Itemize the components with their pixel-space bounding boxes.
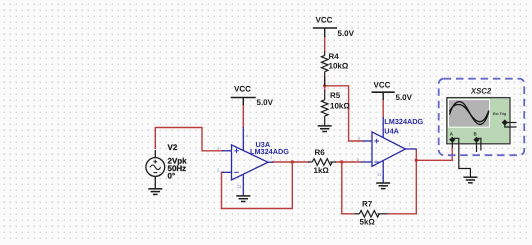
junction node U4A output (415, 159, 418, 162)
svg-text:VCC: VCC (374, 80, 391, 89)
oscilloscope body (447, 98, 510, 144)
svg-text:XSC2: XSC2 (470, 86, 492, 95)
svg-text:R6: R6 (315, 148, 326, 157)
wire node to R7 left (342, 162, 355, 214)
source V2 (146, 150, 165, 189)
svg-text:10kΩ: 10kΩ (329, 61, 349, 70)
oscilloscope XSC2 selection box (439, 79, 525, 156)
wire V2 top to U3A + input (155, 128, 223, 151)
V2 labels (168, 143, 188, 181)
wire R6 to U4A - input (336, 161, 362, 163)
wire U3A output to R6 (272, 161, 309, 163)
op-amp U4A (361, 117, 417, 183)
junction node R4R5-U4A (323, 84, 326, 87)
ground scope (463, 177, 477, 183)
junction node R7 left (340, 160, 343, 163)
svg-text:11: 11 (237, 184, 242, 189)
oscilloscope screen (449, 100, 490, 128)
svg-text:R7: R7 (362, 200, 373, 209)
svg-text:Ext Trig: Ext Trig (493, 112, 506, 116)
scope pin Ext Trig (502, 119, 517, 127)
svg-text:10kΩ: 10kΩ (330, 102, 350, 111)
svg-text:5.0V: 5.0V (257, 98, 274, 107)
ground U4A (376, 183, 390, 189)
svg-text:VCC: VCC (316, 16, 333, 25)
svg-text:V2: V2 (168, 143, 178, 152)
wire R4 to R5 node (324, 76, 326, 91)
ground V2 (148, 189, 162, 195)
svg-text:LM324ADG: LM324ADG (384, 117, 423, 126)
svg-text:U4A: U4A (384, 127, 399, 136)
svg-text:5kΩ: 5kΩ (360, 218, 376, 227)
scope waveform 1 (450, 102, 489, 125)
resistor R7 (355, 211, 388, 218)
wire U3A feedback loop output to - input (222, 161, 293, 209)
resistor R5 (321, 90, 328, 126)
junction node U3A feedback (291, 160, 294, 163)
wire U4A output node to scope A (416, 147, 452, 161)
svg-text:5.0V: 5.0V (396, 93, 413, 102)
VCC rail U4A (372, 80, 413, 102)
op-amp U3A (222, 127, 274, 195)
svg-text:R4: R4 (329, 52, 340, 61)
U3A pin numbers (217, 134, 273, 190)
scope waveform 2 (450, 105, 489, 122)
ground R5 (318, 126, 332, 132)
U4A pin numbers (357, 136, 412, 177)
VCC rail top (R4) (313, 16, 355, 39)
wire VCC to U3A power pin (242, 104, 244, 128)
svg-text:R5: R5 (330, 91, 341, 100)
VCC rail U3A (231, 85, 274, 107)
resistor R6 (308, 159, 336, 166)
wire VCC top to R4 (324, 36, 326, 52)
svg-text:5.0V: 5.0V (338, 29, 355, 38)
resistor R4 (321, 51, 328, 86)
svg-text:0°: 0° (168, 172, 176, 181)
svg-text:1kΩ: 1kΩ (314, 166, 330, 175)
wire R7 right to U4A output (387, 149, 416, 214)
wire VCC to U4A power pin (382, 99, 384, 119)
ground U3A (236, 196, 250, 202)
svg-text:VCC: VCC (234, 85, 251, 94)
wire R4R5 node to U4A + input (325, 86, 363, 141)
svg-text:11: 11 (377, 172, 382, 177)
